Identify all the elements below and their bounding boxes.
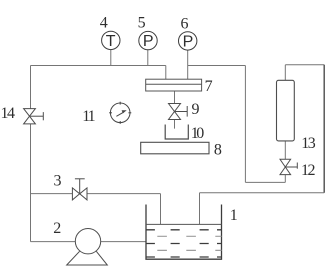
valve 9: [169, 104, 188, 120]
valve 3: [72, 179, 87, 200]
wire bottom feed to valve 12: [245, 181, 285, 183]
wire left vertical lower (valve 14 to pump corner): [30, 124, 32, 242]
pump 2 circle: [75, 229, 100, 254]
gauge 4 thermometer circle: [102, 31, 120, 49]
flange 7 (test section plate): [146, 79, 202, 91]
wire return line horizontal: [200, 192, 325, 194]
svg-text:12: 12: [301, 162, 316, 179]
valve 14: [24, 109, 44, 124]
wire right loop top horizontal: [285, 64, 324, 66]
wire left vertical upper (top pipe to valve 14): [30, 66, 32, 109]
gauge 11 tick 6 o'clock: [119, 121, 121, 124]
wire rotameter top stem: [284, 65, 286, 81]
svg-text:8: 8: [214, 141, 222, 158]
gauge 5 pressure circle: [139, 31, 157, 49]
svg-text:5: 5: [138, 15, 146, 32]
svg-text:6: 6: [181, 15, 189, 32]
svg-text:7: 7: [205, 78, 213, 95]
svg-text:11: 11: [82, 108, 95, 125]
wire bypass line right (valve 3 to tank dip): [87, 193, 161, 195]
tank 1 water dashes row 1: [146, 230, 221, 257]
box 8 (heater plate): [141, 142, 209, 154]
wire valve 9 bottom stem into box 10: [174, 120, 176, 129]
svg-text:10: 10: [191, 125, 205, 142]
wire gauge 4 stem: [110, 49, 112, 65]
wire gauge 6 stem down to flange 7: [187, 50, 189, 79]
wire right loop vertical: [323, 65, 325, 193]
wire main right vertical: [244, 66, 246, 183]
box 10 (sample holder): [165, 125, 188, 140]
wire top pipe left segment: [31, 65, 166, 67]
rotameter 13 body: [277, 80, 295, 141]
gauge 11 dial circle: [109, 102, 131, 124]
svg-text:4: 4: [100, 15, 108, 32]
tank 1 water dashes row 2 (light): [157, 235, 221, 237]
wire gauge 5 stem: [147, 50, 149, 66]
wire top pipe right segment: [188, 65, 246, 67]
tank 1 water dashes row 4 (light): [157, 249, 221, 251]
wire return dip pipe into tank: [199, 193, 201, 225]
tank 1 walls: [146, 205, 222, 260]
wire pump discharge to tank: [101, 241, 146, 243]
valve 12: [280, 159, 297, 174]
svg-text:P: P: [143, 33, 154, 50]
wire flange 7 bottom stem: [174, 91, 176, 104]
tank 1 water dashes row 3: [146, 243, 221, 245]
svg-text:3: 3: [54, 172, 62, 189]
wire rotameter bottom stem to valve 12: [284, 141, 286, 159]
pump 2 base: [67, 251, 108, 265]
svg-text:14: 14: [1, 105, 16, 122]
svg-text:9: 9: [192, 101, 200, 118]
wire bypass line left (valve 3 branch, left of valve): [31, 193, 73, 195]
svg-text:P: P: [183, 34, 194, 51]
svg-text:13: 13: [301, 135, 316, 152]
wire valve 12 lower stem: [284, 175, 286, 183]
gauge 11 tick 3 o'clock: [128, 112, 131, 114]
tank 1 water surface line: [146, 223, 222, 225]
svg-text:1: 1: [230, 207, 238, 224]
gauge 11 tick 12 o'clock: [119, 102, 121, 105]
wire pump suction horizontal: [31, 241, 76, 243]
wire junction drop into flange 7: [165, 66, 167, 80]
wire dip pipe into tank (bypass): [160, 194, 162, 225]
gauge 6 pressure circle: [179, 32, 197, 50]
gauge 11 needle: [116, 112, 123, 116]
tank 1 water dashes row 5: [146, 256, 221, 258]
svg-text:T: T: [106, 33, 116, 50]
gauge 11 tick 9 o'clock: [109, 112, 112, 114]
svg-text:2: 2: [53, 220, 61, 237]
